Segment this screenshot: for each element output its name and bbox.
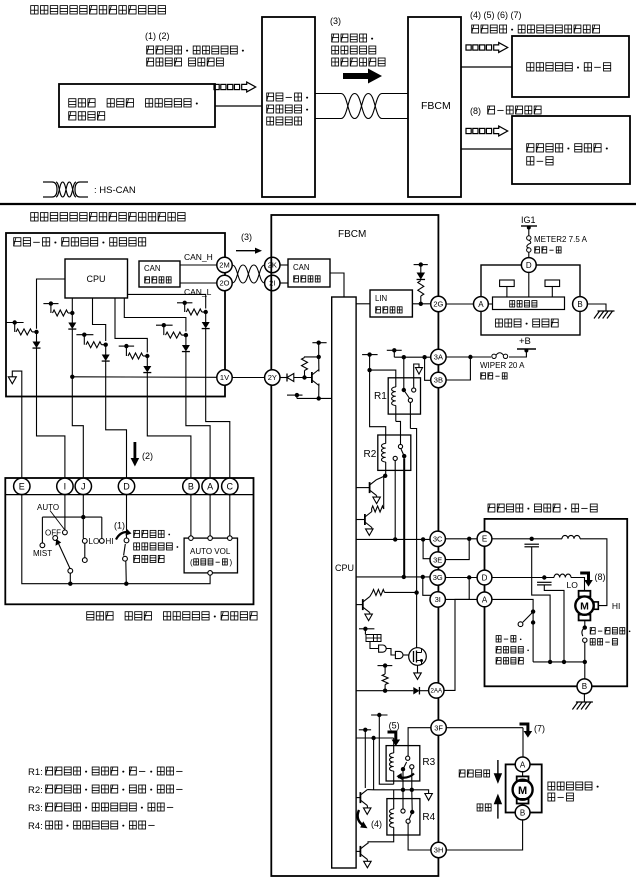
- jumper: 3G bus to 3I: [423, 577, 431, 595]
- box: front wiper motor: [485, 519, 628, 686]
- label fuse(meter2): [535, 247, 561, 253]
- wire: 3A junction down to R1 relay common: [403, 357, 405, 390]
- ESD cluster 1: resistor: [14, 323, 16, 332]
- wire: J down with junction: [82, 495, 84, 539]
- washer switch fixed contact: [124, 538, 129, 543]
- box: wiper and washer switch: [5, 478, 253, 604]
- svg-text:J: J: [81, 482, 86, 492]
- connector 3E: [430, 552, 445, 567]
- connector 3G: [430, 570, 445, 585]
- CAN driver box (FBCM): [288, 259, 330, 287]
- wire: 1V to 2Y: [232, 377, 264, 379]
- wire: cap1 to common bus: [532, 547, 550, 662]
- wire: CAN driver to 2M: [180, 264, 217, 266]
- HI contact circle: [99, 539, 104, 544]
- pull resistor to 2AA bus: [384, 666, 386, 674]
- svg-text:FBCM: FBCM: [421, 100, 451, 112]
- svg-text:R1:: R1:: [28, 767, 43, 778]
- wire: pivot to bottom bus: [69, 573, 71, 584]
- svg-text:A: A: [482, 595, 488, 604]
- contact bus with open arrow: [374, 789, 425, 791]
- connector 3C: [430, 531, 445, 546]
- wire: FBCM to front wiper motor: [461, 148, 512, 150]
- wire: R4 coil top from contact bus: [393, 790, 395, 809]
- svg-text:A: A: [520, 760, 526, 769]
- wire: R2 NC contact down to 3C bus: [394, 461, 396, 540]
- pull-up resistor (2Y): [302, 358, 308, 371]
- wire: washer switch to bottom bus: [125, 561, 128, 584]
- ESD cluster 5: stub: [177, 302, 192, 304]
- ESD cluster 2: stub: [43, 303, 58, 305]
- connector 3H: [431, 842, 446, 857]
- LO moving contact circle: [82, 558, 87, 563]
- svg-text:(3): (3): [241, 232, 252, 242]
- svg-text:AUTO VOL: AUTO VOL: [190, 547, 231, 556]
- 3G bus wire: [356, 576, 431, 578]
- svg-text:I: I: [64, 482, 67, 492]
- rail stub above Q7: [312, 342, 326, 344]
- wire: junction down to contact bus: [373, 738, 375, 790]
- wire: stub2 down to 3A wire: [393, 350, 395, 357]
- svg-text:2M: 2M: [219, 261, 229, 270]
- label auto-stop 1: [496, 636, 521, 642]
- diode to 2AA: [413, 687, 419, 695]
- svg-text:LO: LO: [89, 537, 100, 546]
- circuit breaker: [582, 628, 585, 637]
- wire: cap2 to common bus: [544, 585, 564, 662]
- wire to connector C: [206, 397, 230, 479]
- block: start-stop unit: [262, 17, 315, 197]
- rear direction arrow: [495, 796, 501, 819]
- connector B (rain sensor): [573, 297, 588, 312]
- connector 3I: [430, 592, 445, 607]
- relay R1 armature: [404, 390, 410, 399]
- relay R3 coil: [390, 753, 394, 771]
- wire: 3F to R3 upper contact: [408, 728, 431, 756]
- LO contact circle: [82, 539, 87, 544]
- svg-text:WIPER 20 A: WIPER 20 A: [480, 361, 525, 370]
- wire: junction to 3B inside: [425, 357, 431, 380]
- box: washer motor: [506, 764, 542, 812]
- wire: CPU pin3 jog to cluster3: [93, 298, 106, 341]
- svg-text:CPU: CPU: [335, 563, 354, 573]
- ESD cluster 3: resistor: [83, 335, 85, 345]
- washer motor M: [513, 780, 533, 800]
- connector A (switch): [202, 478, 218, 494]
- svg-text:B: B: [582, 682, 587, 691]
- label rear direction: [477, 804, 491, 811]
- connector A (rain sensor): [474, 297, 489, 312]
- D wire inside motor: [492, 577, 554, 579]
- ESD cluster 2: zener diode: [71, 310, 73, 323]
- label washer motor 1: [548, 782, 599, 790]
- rail stub (R3 feed): [371, 714, 387, 716]
- relay R3 second contact: [410, 765, 414, 769]
- svg-text:2Y: 2Y: [268, 373, 277, 382]
- svg-text:(7): (7): [534, 724, 545, 734]
- suppressor capacitor 2: [537, 581, 552, 583]
- wire: CPU left pin to cluster1: [37, 279, 66, 329]
- relay R1 coil: [392, 387, 396, 406]
- ESD cluster 6: resistor: [163, 325, 165, 335]
- svg-text:2AA: 2AA: [430, 688, 443, 695]
- suppressor capacitor 1: [524, 543, 539, 545]
- open arrow below Q3 emitter: [369, 613, 371, 615]
- wire: stub1 down to R1 coil branch: [369, 355, 371, 371]
- ESD cluster 5: resistor: [184, 303, 186, 312]
- wire: CPU to R3 coil top with junction: [356, 737, 393, 739]
- box: FBCM (wiring): [271, 215, 438, 876]
- wire: crossbar to HI: [101, 517, 103, 538]
- wire: Q7 emitter down to CPU: [319, 384, 332, 399]
- wire: MOSFET source to open arrow: [417, 665, 419, 673]
- connector E: [14, 478, 30, 494]
- wire: stub down to driver IC: [364, 629, 366, 635]
- wire: FBCM to washer motor: [461, 66, 512, 68]
- svg-text:3C: 3C: [433, 535, 443, 544]
- wire: switch to start-stop unit: [215, 105, 262, 107]
- wiper motor M: [575, 596, 593, 614]
- ESD cluster 3: zener diode: [105, 345, 107, 355]
- ESD cluster 6: zener diode: [185, 335, 187, 345]
- wire: junction down to 3B: [446, 357, 471, 380]
- connector B (washer motor): [515, 805, 530, 820]
- svg-text:(4) (5) (6) (7): (4) (5) (6) (7): [470, 10, 522, 20]
- wire: washer B to 3H: [446, 820, 522, 850]
- wire: CPU pin5 jog to cluster6: [124, 298, 186, 332]
- wire: R4 coil bottom to Q6 collector: [368, 827, 394, 843]
- dashed control arrow to washer motor: [466, 45, 471, 50]
- svg-text:(1): (1): [114, 521, 125, 531]
- connector E (wiper motor): [477, 531, 492, 546]
- rain sensor element left: [500, 280, 515, 287]
- solid black arrow (3): [343, 69, 382, 84]
- connector A (wiper motor): [477, 592, 492, 607]
- wire to connector B: [147, 397, 191, 479]
- wire: R1 coil bottom jog to R2 upper contact: [396, 421, 401, 444]
- connector 2G: [431, 296, 446, 311]
- caption: wiper and washer switch: [87, 612, 257, 620]
- connector 2K: [265, 257, 280, 272]
- ESD cluster 7: stub: [119, 345, 134, 347]
- transistor Q1 (R1/R2 driver upper): [356, 487, 370, 489]
- wire: C down to AUTO VOL: [229, 495, 231, 536]
- label fuse(wiper): [481, 373, 507, 379]
- buffer gate 2: [395, 651, 403, 658]
- bold curved arrow (4): [358, 810, 363, 825]
- svg-text:MIST: MIST: [33, 549, 52, 558]
- zener diode and resistor chain above 2G node: [414, 264, 428, 266]
- wire: B to ground: [587, 304, 606, 311]
- svg-text:(3): (3): [330, 16, 341, 26]
- label rain sensor: [496, 319, 559, 327]
- wire: diode to Q7 base: [294, 377, 312, 379]
- wire: motor to B: [522, 804, 524, 806]
- wire: A to motor: [522, 772, 524, 777]
- connector A (washer motor): [515, 757, 530, 772]
- svg-text:R1: R1: [374, 391, 387, 402]
- bold arrow (2): [131, 442, 140, 467]
- wiper motor right brush: [594, 602, 598, 609]
- svg-text:E: E: [19, 482, 25, 492]
- resistor between Q1 and Q2 collectors: [372, 506, 384, 512]
- wire: stub down to Q5 collector area: [364, 730, 366, 788]
- svg-text:LO: LO: [567, 580, 579, 590]
- svg-text:(5): (5): [389, 721, 400, 731]
- microcomputer box in rain sensor: [493, 297, 565, 310]
- open arrow below Q2 emitter: [371, 528, 373, 529]
- svg-text:2G: 2G: [433, 300, 443, 309]
- block: wiper and washer switch: [59, 84, 215, 127]
- wire: 2I to FBCM CAN driver: [280, 282, 288, 284]
- CPU box (FBCM) tall: [332, 297, 356, 868]
- label circuit breaker 2: [590, 639, 617, 645]
- choke coil (HI): [562, 535, 580, 538]
- washer switch moving contact: [123, 556, 128, 561]
- connector D (rain sensor): [521, 258, 536, 273]
- relay R2 coil: [382, 444, 386, 463]
- connector 3B: [431, 372, 446, 387]
- choke coil (LO): [554, 574, 571, 577]
- svg-text:R2: R2: [364, 449, 377, 460]
- connector 2I: [265, 275, 280, 290]
- ESD cluster 7: zener diode: [146, 356, 148, 366]
- svg-text:CAN_L: CAN_L: [184, 287, 212, 297]
- MIST contact circle: [40, 543, 45, 548]
- ESD cluster 2: resistor: [50, 304, 52, 313]
- svg-text:+B: +B: [519, 336, 531, 347]
- AUTO contact circle: [63, 530, 68, 535]
- connector B (wiper motor): [577, 679, 592, 694]
- legend: HS-CAN twisted pair symbol: [43, 181, 52, 183]
- wire: I down to AUTO contact: [64, 495, 66, 530]
- wire: 2K to FBCM CAN driver: [280, 264, 288, 266]
- wire: crossbar to MIST: [41, 517, 43, 543]
- wire: R1 NO contact jog down (to MOSFET drain line): [410, 429, 416, 593]
- bold curved arrow (1): [116, 532, 128, 540]
- svg-text:C: C: [227, 482, 234, 492]
- 3C bus wire: [356, 538, 431, 540]
- label auto-stop 3: [496, 658, 523, 664]
- connector D: [118, 478, 134, 494]
- block: front wiper motor: [512, 116, 630, 184]
- bold arrow (5) into R3: [388, 731, 401, 747]
- svg-text:3E: 3E: [433, 555, 442, 564]
- jumper: 3C bus to 3E: [423, 539, 431, 558]
- svg-text:AUTO: AUTO: [37, 503, 59, 512]
- connector 1V: [217, 370, 232, 385]
- connector C: [222, 478, 238, 494]
- label front washer switch: [134, 530, 170, 537]
- relay R1 box: [388, 378, 420, 414]
- svg-text:3H: 3H: [434, 846, 444, 855]
- wire: A down to AUTO VOL: [209, 495, 211, 536]
- relay R4 armature: [409, 812, 412, 819]
- connector strip line: [5, 494, 253, 496]
- wire: CPU to LIN driver: [356, 303, 370, 305]
- relay R1 common contact dot: [402, 388, 406, 392]
- junction: R2 coil bottom / transistor collector: [383, 474, 387, 478]
- svg-text:A: A: [207, 482, 213, 492]
- connector 2M: [217, 257, 232, 272]
- relay R4 common dot: [410, 810, 414, 814]
- wire: A to microcomputer: [488, 303, 492, 305]
- dashed signal arrow from switch to start-stop unit: [214, 84, 219, 89]
- label circuit breaker 1: [590, 628, 630, 634]
- input diode (2Y): [287, 374, 294, 382]
- rain sensor box: [481, 265, 580, 335]
- junction: drain line / resistor: [414, 590, 418, 594]
- wire: D to microcomputer: [528, 272, 530, 297]
- svg-text:HI: HI: [612, 601, 621, 611]
- rail stub (R4 feed): [359, 729, 371, 731]
- armature pivot circle: [68, 568, 73, 573]
- label front direction: [459, 770, 489, 777]
- relay R2 box: [378, 435, 411, 470]
- wire: CPU right pin to cluster5: [128, 294, 206, 308]
- svg-text:CAN: CAN: [293, 263, 309, 272]
- wiper motor top brush: [579, 591, 591, 597]
- svg-text:2I: 2I: [269, 279, 275, 288]
- wire: choke to HI brush: [580, 539, 607, 606]
- connector 2AA: [429, 683, 444, 698]
- relay R2 upper contact: [398, 444, 402, 448]
- wire: R1 upper contact to open arrow: [414, 364, 419, 388]
- A wire inside motor (auto-stop): [492, 599, 533, 662]
- svg-text:METER2 7.5 A: METER2 7.5 A: [534, 235, 588, 244]
- ESD cluster 1: zener diode: [36, 332, 38, 342]
- wiper motor bottom brush: [579, 615, 591, 621]
- svg-text:(2): (2): [142, 451, 153, 461]
- washer motor bottom brush: [517, 799, 529, 804]
- bold arrow (8) into LO: [580, 572, 593, 587]
- gate resistor: [372, 589, 384, 595]
- wire: stub down and over to R3 coil bottom: [379, 715, 393, 784]
- wire: D down to washer switch: [126, 495, 128, 538]
- svg-text:B: B: [188, 482, 194, 492]
- svg-text:CAN: CAN: [144, 264, 160, 273]
- wiper switch crossbar: [42, 516, 101, 518]
- label auto-stop 2: [496, 647, 529, 653]
- wire: 2Y to input diode: [280, 377, 287, 379]
- svg-text:R2:: R2:: [28, 785, 43, 796]
- relay R3 common dot: [401, 767, 405, 771]
- wire: Q3 collector to gate resistor: [370, 592, 373, 596]
- title: washer interlock system wiring diagram: [31, 213, 185, 221]
- wire: gate1 to gate2: [387, 649, 396, 656]
- wire: R4 upper contact up to bus: [402, 792, 404, 809]
- wire: resistor up to R2 coil junction: [383, 476, 385, 509]
- connector 3A: [431, 349, 446, 364]
- connector B (switch): [183, 478, 199, 494]
- wire: LO to moving contact: [84, 543, 86, 557]
- 1V bus wire: [72, 376, 217, 379]
- jumper: 3I to D wire: [445, 580, 469, 600]
- wire: FBCM CAN driver to CPU: [330, 273, 344, 297]
- auto-stop switch contact: [518, 622, 523, 627]
- AUTO VOL terminal C: [228, 536, 233, 541]
- relay R1 upper contact: [412, 388, 416, 392]
- svg-text:2O: 2O: [219, 279, 229, 288]
- relay R3 upper contact: [406, 756, 410, 760]
- switch bottom bus: [22, 495, 210, 584]
- wire: bottom brush to circuit breaker: [584, 620, 586, 627]
- 2AA bus wire: [356, 690, 413, 692]
- open arrow below Q5 emitter: [366, 806, 368, 808]
- wire: bus to B: [584, 662, 586, 679]
- bold arc arrow (R3 mode): [398, 774, 414, 778]
- connector D (wiper motor): [477, 570, 492, 585]
- wire: gate2 to MOSFET gate: [403, 654, 408, 656]
- svg-text:E: E: [482, 535, 487, 544]
- auto-stop switch armature: [523, 613, 532, 622]
- relay R4 coil: [389, 809, 393, 827]
- svg-text:1V: 1V: [220, 373, 229, 382]
- label front wiper motor: [488, 504, 597, 512]
- wire: B to ground: [583, 694, 585, 702]
- connector 2Y: [265, 370, 280, 385]
- chassis ground (rain sensor B): [594, 311, 615, 319]
- wire: CPU pin4 jog to cluster7: [115, 298, 147, 353]
- twisted pair 2M/2O to 2K/2I: [232, 265, 264, 283]
- relay R3 armature: [403, 762, 407, 769]
- wire (thick): R2 common down to 3G bus: [403, 458, 405, 577]
- svg-text:R4:: R4:: [28, 821, 43, 832]
- svg-text:B: B: [577, 300, 582, 309]
- fuse WIPER 20A: [492, 354, 496, 358]
- AUTO VOL terminal B: [189, 536, 194, 541]
- wire: 3G to D with junction: [445, 577, 477, 579]
- wire: 2G to rain sensor A: [446, 303, 473, 305]
- open arrow (R1 output continuation): [416, 368, 423, 375]
- wire: Q7 collector up to rail stub: [318, 344, 320, 372]
- wire: R3 second contact down to bus: [411, 769, 413, 790]
- svg-text:R4: R4: [422, 812, 435, 823]
- relay R2 armature: [401, 449, 404, 456]
- relay R3 box: [386, 746, 420, 781]
- connector 3F: [431, 720, 446, 735]
- jumper: 3E to E wire: [445, 541, 469, 560]
- svg-text:CPU: CPU: [86, 274, 105, 284]
- transistor Q7 (2Y input): [311, 372, 313, 383]
- wire: R4 NO contact down to 3H: [408, 823, 431, 850]
- svg-text:D: D: [123, 482, 130, 492]
- E wire inside motor: [492, 538, 562, 540]
- relay R2 NC contact: [393, 456, 397, 460]
- wire: 3A into FBCM with junctions: [394, 356, 430, 358]
- svg-text:D: D: [526, 261, 532, 270]
- CPU box (start-stop unit): [65, 259, 128, 298]
- svg-text:3I: 3I: [435, 595, 441, 604]
- connector I: [57, 478, 73, 494]
- svg-text:(8): (8): [595, 572, 606, 582]
- rain sensor element right: [545, 280, 560, 287]
- connector 2O: [217, 275, 232, 290]
- wire: 2AA loop to A: [444, 599, 477, 690]
- svg-text:R3:: R3:: [28, 803, 43, 814]
- wire: R3 common down to contact bus: [402, 771, 404, 790]
- washer switch armature: [124, 544, 126, 556]
- svg-text:M: M: [580, 601, 589, 613]
- wire: CPU pin2 down: [71, 298, 73, 310]
- motor common bus: [533, 661, 585, 663]
- wire: choke to LO brush: [571, 578, 585, 591]
- AUTO VOL terminal A: [208, 536, 213, 541]
- svg-text:D: D: [482, 573, 488, 582]
- block: FBCM: [408, 17, 461, 197]
- rail stub (driver supply): [359, 628, 374, 630]
- wire: stub1 rail down to R2 coil: [370, 370, 386, 443]
